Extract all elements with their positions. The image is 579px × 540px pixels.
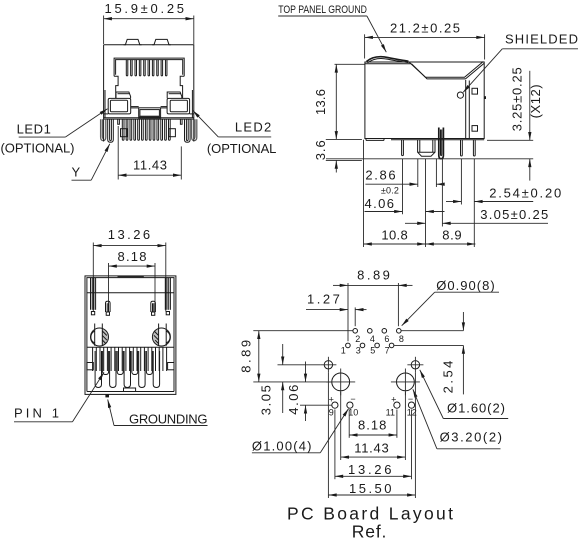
svg-text:+: + [329, 395, 334, 405]
even pin row reference line [253, 330, 352, 332]
long contact fingers [95, 351, 160, 388]
hole 9 [332, 402, 338, 408]
dimension 8.89 (top horizontal) [333, 267, 413, 341]
svg-text:1.27: 1.27 [307, 292, 340, 307]
shield pin A right [165, 278, 170, 315]
svg-text:±0.2: ±0.2 [381, 186, 399, 196]
svg-text:−: − [350, 394, 355, 404]
label TOP PANEL GROUND with leader [278, 4, 386, 52]
fiducial row reference line [278, 364, 321, 366]
svg-text:(OPTIONAL: (OPTIONAL [207, 141, 277, 156]
label PIN 1 with leader [14, 372, 104, 422]
hole 9 row reference line [300, 404, 332, 406]
svg-text:3.05±0.25: 3.05±0.25 [480, 207, 548, 222]
svg-text:11.43: 11.43 [354, 441, 389, 456]
svg-text:Ref.: Ref. [352, 522, 387, 540]
svg-text:8: 8 [399, 334, 404, 344]
svg-text:5: 5 [370, 345, 375, 355]
shield contact dimple [457, 92, 463, 98]
comb teeth [122, 119, 170, 140]
pin thin right [473, 140, 475, 156]
svg-text:+: + [391, 395, 396, 405]
label Ø0.90(8) with leader [402, 278, 499, 326]
svg-text:13.26: 13.26 [108, 227, 150, 242]
grounding tab [105, 394, 109, 397]
svg-text:GROUNDING: GROUNDING [129, 412, 208, 427]
8 contact slots [126, 60, 167, 76]
svg-text:Ø1.00(4): Ø1.00(4) [252, 439, 312, 454]
bottom base lines [366, 139, 384, 141]
pin tip reference line [326, 158, 533, 160]
label LED1 [17, 109, 108, 137]
label Ø1.60(2) with leader [420, 370, 508, 419]
bottom center notch [124, 388, 136, 392]
svg-text:15.50: 15.50 [349, 481, 392, 496]
svg-text:SHIELDED: SHIELDED [505, 32, 578, 47]
pin stub left [118, 119, 120, 124]
dimension 3.25±0.25 (X12) rotated [487, 67, 543, 180]
LED2 leads (hairpin) [185, 119, 191, 142]
svg-text:10.8: 10.8 [381, 228, 407, 243]
svg-text:−: − [408, 394, 413, 404]
svg-text:15.9±0.25: 15.9±0.25 [105, 1, 185, 16]
label SHIELDED with leader [463, 32, 578, 93]
hole 12 [408, 402, 414, 408]
svg-text:LED2: LED2 [235, 120, 271, 135]
dimension 1.27 [306, 292, 367, 327]
pin hole 7 [389, 343, 394, 348]
dimension 2.54±0.20 [446, 159, 561, 247]
pin hole 1 [346, 343, 351, 348]
label Ø1.00(4) with leader [252, 409, 349, 454]
hole 11 [394, 402, 400, 408]
svg-text:2: 2 [355, 334, 360, 344]
jack opening [114, 58, 184, 98]
top mounting tab left [124, 39, 142, 44]
inner wall line [87, 292, 174, 294]
svg-text:8.9: 8.9 [442, 228, 461, 243]
fiducial hole left Ø1.60 [320, 357, 336, 373]
svg-text:TOP PANEL GROUND: TOP PANEL GROUND [278, 4, 367, 16]
svg-text:2.54±0.20: 2.54±0.20 [489, 185, 561, 200]
svg-text:6: 6 [384, 334, 389, 344]
label GROUNDING with leader [108, 400, 208, 427]
mounting hole right Ø3.20 [391, 369, 420, 396]
dimension 8.89 (left vertical, rotated) [239, 331, 259, 382]
svg-text:(X12): (X12) [528, 84, 543, 118]
svg-text:1: 1 [341, 345, 346, 355]
dimension 10.8 and 8.9 [364, 140, 476, 247]
LED1 window [108, 92, 131, 114]
svg-text:4: 4 [370, 334, 375, 344]
label Ø3.20(2) with leader [413, 389, 502, 449]
dimension 21.2±0.25 [365, 20, 485, 59]
side body outline [365, 57, 486, 141]
dimension 8.18 (layout) [349, 410, 397, 438]
pin hole 2 [353, 329, 358, 334]
side latch notch right [168, 363, 174, 370]
top groove double line [409, 62, 483, 78]
mounting post right (circle with slot) [152, 324, 170, 347]
dimension 13.26 [93, 227, 166, 311]
svg-text:(OPTIONAL): (OPTIONAL) [1, 140, 75, 155]
svg-text:11: 11 [386, 407, 395, 417]
svg-text:4.06: 4.06 [286, 385, 301, 415]
dimension 2.54 (right vertical, rotated) [441, 312, 464, 394]
svg-text:4.06: 4.06 [365, 196, 395, 211]
svg-text:Ø0.90(8): Ø0.90(8) [436, 278, 495, 293]
locating post [418, 140, 435, 157]
dimension 3.6 (rotated) [313, 139, 362, 172]
label LED2 [193, 111, 271, 137]
central latch tab [131, 107, 167, 119]
svg-text:PC Board Layout: PC Board Layout [287, 504, 453, 524]
top edge slot [118, 276, 144, 278]
svg-text:8.89: 8.89 [357, 267, 390, 282]
contact comb area [87, 346, 174, 348]
pin hole 6 [382, 329, 387, 334]
pin hole 5 [375, 343, 380, 348]
mounting post left (circle with slot) [91, 324, 109, 347]
svg-text:PIN 1: PIN 1 [14, 406, 59, 421]
LED1 leads (hairpin) [108, 119, 114, 142]
body bottom band [104, 114, 194, 119]
flange square bottom [472, 126, 478, 132]
left shield hook leg [101, 119, 106, 141]
short contact fingers [103, 351, 153, 375]
dimension 3.05±0.25 [405, 159, 548, 227]
svg-text:Ø3.20(2): Ø3.20(2) [440, 430, 502, 445]
right edge tick [484, 96, 486, 99]
svg-text:7: 7 [385, 345, 390, 355]
LED pin B left [106, 301, 111, 315]
svg-text:13.6: 13.6 [313, 89, 328, 115]
svg-text:11.43: 11.43 [133, 158, 167, 173]
svg-text:13.26: 13.26 [348, 462, 392, 477]
dimension 15.50 (layout) [328, 373, 415, 498]
side latch notch left [87, 363, 93, 370]
dimension 3.05 (rotated) [259, 344, 283, 415]
front flange double line [465, 80, 467, 139]
dimension 2.86 [365, 159, 444, 187]
svg-text:LED1: LED1 [17, 122, 51, 137]
top mounting tab right [152, 39, 171, 44]
svg-text:Y: Y [72, 164, 81, 179]
retention box right [169, 129, 176, 137]
panel spring clip [367, 57, 409, 62]
dimension 4.06 (rotated) [286, 362, 306, 422]
dimension 4.06 ±0.2 [365, 159, 445, 247]
right shield hook leg [192, 119, 197, 141]
fiducial hole right Ø1.60 [407, 357, 423, 373]
retention box left [121, 129, 128, 137]
shield leg (dark hairpin) [439, 128, 444, 159]
shield pin A left [91, 278, 96, 315]
polarity marks and hole numbers [329, 394, 417, 417]
mounting hole row reference line [253, 381, 331, 383]
housing outline [85, 276, 176, 395]
mounting hole left Ø3.20 [326, 369, 355, 396]
connector body outline [104, 39, 194, 119]
svg-text:9: 9 [329, 407, 334, 417]
dimension 8.18 [109, 249, 156, 312]
dimension 13.26 (layout) [335, 410, 412, 480]
svg-text:2.54: 2.54 [441, 361, 456, 394]
svg-text:2.86: 2.86 [365, 168, 395, 183]
flange square top [472, 88, 478, 94]
svg-text:3.25±0.25: 3.25±0.25 [510, 67, 525, 131]
odd pin row reference line [394, 344, 463, 346]
LED2 window [167, 92, 190, 114]
pin hole 8 [397, 329, 402, 334]
svg-text:3.05: 3.05 [259, 385, 274, 415]
pin thin left [402, 140, 404, 156]
pin numbers [341, 334, 404, 355]
dimension 15.9±0.25 [104, 1, 194, 44]
svg-text:8.18: 8.18 [118, 249, 147, 264]
pin hole 4 [368, 329, 373, 334]
label Y with leader [72, 144, 110, 180]
pin hole 3 [360, 343, 365, 348]
svg-text:21.2±0.25: 21.2±0.25 [390, 20, 460, 35]
hole 10 [347, 402, 353, 408]
inner side edge lines [104, 90, 106, 118]
dimension 11.43 (layout) [341, 392, 406, 460]
svg-text:10: 10 [348, 407, 358, 417]
svg-text:Ø1.60(2): Ø1.60(2) [447, 400, 505, 415]
pin stub right [180, 119, 182, 124]
LED pin B right [151, 301, 156, 315]
pin thin mid-right [461, 140, 463, 156]
dimension 13.6 (rotated) [313, 64, 365, 139]
dimension 11.43 [118, 126, 181, 180]
svg-text:8.18: 8.18 [358, 418, 386, 433]
svg-text:8.89: 8.89 [239, 340, 254, 373]
svg-text:3: 3 [356, 345, 361, 355]
svg-text:3.6: 3.6 [313, 140, 328, 160]
